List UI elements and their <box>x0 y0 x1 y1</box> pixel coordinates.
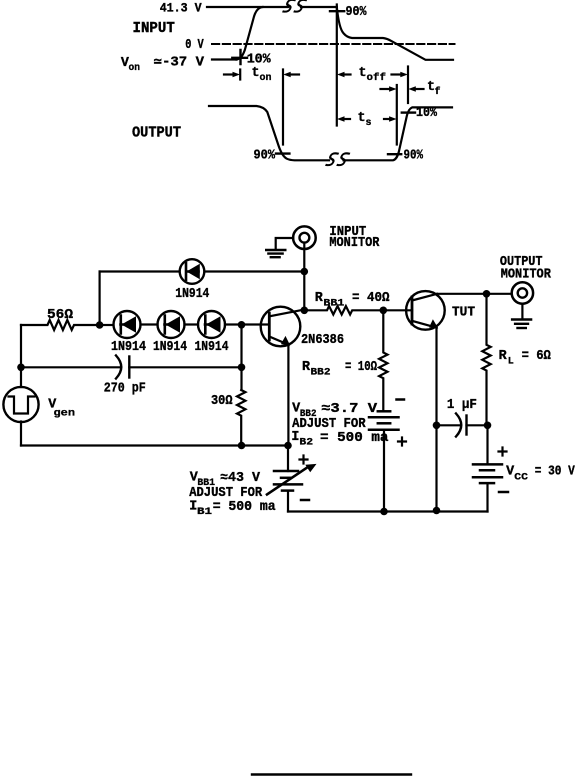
wire TUT emitter vertical <box>435 328 437 511</box>
diode D3 1N914 <box>198 311 225 338</box>
connector INPUT MONITOR <box>293 226 316 249</box>
wire diode string segment 1 <box>100 324 114 326</box>
svg-text:= 40Ω: = 40Ω <box>352 291 390 306</box>
resistor 56ohm <box>21 320 97 330</box>
wire Von -37V level line <box>212 58 237 60</box>
svg-text:≈3.7 V: ≈3.7 V <box>321 402 378 417</box>
wire Vgen bottom to ground rail <box>20 422 22 446</box>
measurement bar at input 10% point <box>239 70 241 80</box>
svg-text:t: t <box>252 66 260 81</box>
measurement line at output fall 90% <box>282 70 284 145</box>
svg-text:t: t <box>358 111 366 126</box>
svg-text:t: t <box>359 66 367 81</box>
wire VBB1 bottom to rail <box>287 491 289 512</box>
wire left vertical from 56ohm to Vgen <box>20 325 22 387</box>
dimension arrow t_on left <box>224 72 240 78</box>
wire input falling edge and tail <box>337 7 453 60</box>
pulse generator Vgen <box>3 387 38 422</box>
dimension arrow t_s right <box>384 116 397 122</box>
diode D2 1N914 <box>158 311 185 338</box>
bottom rule line <box>252 773 411 775</box>
svg-text:56Ω: 56Ω <box>47 308 73 323</box>
svg-text:I: I <box>291 430 299 445</box>
node junction dot base branch <box>238 321 246 329</box>
battery VCC <box>473 464 502 483</box>
svg-text:1N914: 1N914 <box>153 340 187 355</box>
svg-text:= 30 V: = 30 V <box>535 465 576 480</box>
svg-text:on: on <box>260 73 272 84</box>
battery VBB2 <box>369 411 399 430</box>
svg-text:270 pF: 270 pF <box>104 382 146 397</box>
wire TUT collector rail <box>437 293 511 295</box>
node junction dot 30ohm at rail <box>238 442 246 450</box>
wire input 41.3V level line right <box>301 6 337 8</box>
wire up to top diode branch <box>98 272 100 326</box>
node junction dot RL top <box>483 290 491 298</box>
svg-text:OUTPUT: OUTPUT <box>132 126 181 142</box>
svg-text:MONITOR: MONITOR <box>329 236 380 251</box>
dimension arrow t_s left <box>337 116 350 122</box>
svg-text:CC: CC <box>514 473 528 484</box>
svg-text:on: on <box>129 63 141 74</box>
wire diode string segment 3 <box>185 323 199 325</box>
resistor RL 6ohm vertical <box>482 294 490 426</box>
svg-text:= 10Ω: = 10Ω <box>345 360 377 375</box>
svg-text:s: s <box>366 118 372 129</box>
dimension arrow t_f right <box>408 86 423 92</box>
measurement line at output rise 90% <box>396 85 398 145</box>
tick output rising 90% <box>388 153 401 155</box>
label minus VBB2 <box>397 398 405 401</box>
wire cap 1uF branch left <box>437 424 460 426</box>
svg-text:= 500 ma: = 500 ma <box>213 500 276 515</box>
wire input 41.3V level line left <box>207 6 288 8</box>
break symbol bottom SS <box>326 153 349 165</box>
svg-text:INPUT: INPUT <box>133 21 176 37</box>
wire RBB1 to TUT base <box>383 309 412 311</box>
resistor RBB1 40ohm <box>304 306 383 314</box>
wire top diode branch right <box>205 270 304 272</box>
label plus VBB1 <box>300 456 308 464</box>
svg-text:R: R <box>499 349 508 364</box>
node junction dot at cap branch left <box>17 364 25 372</box>
adjustable arrow VBB1 <box>267 464 317 495</box>
transistor Q1 2N6386 <box>261 307 303 347</box>
dimension arrow t_off right <box>392 72 408 78</box>
wire monitor vertical <box>303 244 305 272</box>
ground input monitor <box>266 250 285 257</box>
svg-text:0 V: 0 V <box>185 38 204 53</box>
wire emitter ground rail <box>21 444 288 446</box>
wire input monitor to ground <box>276 238 294 249</box>
tick input rising 10% <box>232 50 247 64</box>
diode D4 1N914 top <box>180 259 205 284</box>
measurement line at input fall 90% <box>336 5 338 126</box>
measurement line at output rise 10% <box>407 67 409 104</box>
wire bottom rail <box>288 510 488 512</box>
svg-text:2N6386: 2N6386 <box>301 333 344 348</box>
ground output monitor <box>512 320 531 329</box>
label minus VBB1 <box>301 499 309 502</box>
svg-text:f: f <box>435 86 441 98</box>
wire output monitor to ground <box>521 305 523 319</box>
battery VBB1 adjustable <box>287 446 289 472</box>
wire capacitor branch left <box>21 366 121 368</box>
capacitor C2 1uF <box>456 414 467 437</box>
svg-text:= 6Ω: = 6Ω <box>522 349 551 364</box>
svg-text:off: off <box>367 72 387 84</box>
connector OUTPUT MONITOR <box>512 282 533 303</box>
svg-text:= 500 ma: = 500 ma <box>320 431 389 446</box>
wire output high level left <box>209 106 329 160</box>
dimension arrow t_off left <box>337 72 351 78</box>
svg-text:41.3 V: 41.3 V <box>160 2 202 16</box>
wire Vcc top <box>486 425 488 464</box>
svg-text:gen: gen <box>54 408 76 420</box>
label minus VCC <box>499 491 508 494</box>
svg-text:90%: 90% <box>404 149 424 164</box>
svg-text:R: R <box>315 291 324 306</box>
wire diode string segment 2 <box>141 323 158 325</box>
resistor 30ohm <box>237 390 245 446</box>
wire diode string to base <box>225 323 269 325</box>
dimension arrow t_f left <box>381 86 397 92</box>
tick input falling 90% <box>330 10 344 12</box>
diode D1 1N914 <box>114 311 141 338</box>
wire collector up to monitor rail <box>303 272 305 311</box>
svg-text:≃-37 V: ≃-37 V <box>154 56 205 71</box>
wire VBB2 bottom to rail <box>383 430 385 512</box>
svg-text:MONITOR: MONITOR <box>501 267 552 282</box>
svg-text:B2: B2 <box>299 438 313 449</box>
label plus VCC <box>499 448 507 456</box>
svg-text:90%: 90% <box>346 5 368 20</box>
capacitor 270pF <box>116 356 129 379</box>
node junction dot diode branch split <box>96 321 104 329</box>
node junction dot monitor rail <box>301 268 309 276</box>
svg-text:BB1: BB1 <box>323 299 344 310</box>
svg-text:BB2: BB2 <box>311 368 331 379</box>
svg-text:1N914: 1N914 <box>111 340 146 355</box>
node junction dot emitter rail <box>284 442 292 450</box>
wire input rising edge <box>237 7 263 60</box>
wire capacitor branch right <box>129 366 241 368</box>
wire output low level and rising edge <box>344 107 453 160</box>
node junction dot RBB1 RBB2 <box>380 307 388 315</box>
wire cap 1uF branch right <box>467 424 488 426</box>
break symbol top SS <box>283 0 306 12</box>
tick output falling 90% <box>276 152 289 154</box>
wire Vcc bottom to rail <box>486 483 488 511</box>
wire 0V dashed line <box>212 43 455 45</box>
node junction dot emitter cap <box>433 422 441 430</box>
dimension arrow t_on right <box>283 72 299 78</box>
node junction dot cap right Vcc <box>484 422 492 430</box>
tick output rising 10% <box>402 111 415 113</box>
wire emitter vertical <box>287 345 289 446</box>
svg-text:1N914: 1N914 <box>195 340 229 355</box>
svg-text:L: L <box>508 357 514 368</box>
svg-text:30Ω: 30Ω <box>211 394 233 409</box>
svg-text:≈43 V: ≈43 V <box>220 471 261 486</box>
node junction dot VBB2 bottom rail <box>380 508 388 516</box>
resistor RBB2 10ohm vertical <box>379 310 387 411</box>
node junction dot collector <box>301 307 309 315</box>
svg-text:1N914: 1N914 <box>175 287 209 302</box>
svg-text:10%: 10% <box>416 106 438 121</box>
svg-text:TUT: TUT <box>452 306 475 321</box>
svg-text:B1: B1 <box>197 507 212 518</box>
svg-text:ADJUST FOR: ADJUST FOR <box>189 486 263 501</box>
svg-text:90%: 90% <box>254 149 276 164</box>
node junction dot cap to 30ohm <box>238 364 246 372</box>
label plus VBB2 <box>398 438 406 446</box>
svg-text:ADJUST FOR: ADJUST FOR <box>292 417 366 432</box>
transistor TUT <box>406 291 445 330</box>
wire top diode branch left <box>100 270 179 272</box>
wire 30ohm branch vertical <box>240 325 242 391</box>
svg-text:1 μF: 1 μF <box>447 398 477 413</box>
node junction dot emitter bottom rail <box>433 507 441 515</box>
